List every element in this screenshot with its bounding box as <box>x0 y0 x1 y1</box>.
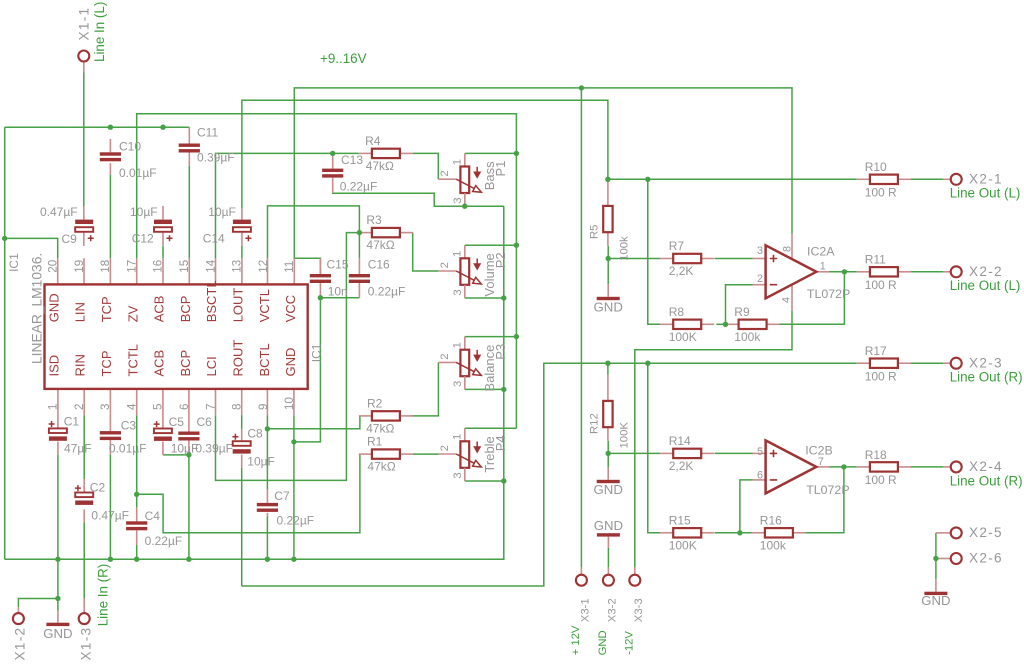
wire R8 feed from R10 node <box>648 179 660 324</box>
pin R12 top/bottom <box>607 375 609 401</box>
wire R10 to X2-1 <box>911 178 943 180</box>
capacitor C13 <box>322 169 343 172</box>
wire pin20 to GND rail <box>5 238 58 258</box>
svg-text:R12: R12 <box>589 413 601 434</box>
wire R14 to op-amp + <box>715 452 753 454</box>
potentiometer P1 Bass <box>464 153 466 166</box>
svg-text:47kΩ: 47kΩ <box>367 460 395 474</box>
svg-text:C13: C13 <box>341 153 363 167</box>
wire R1 to P4 wiper <box>413 453 438 455</box>
svg-text:GND: GND <box>283 348 298 377</box>
IC1 LM1036 body <box>45 284 308 389</box>
svg-text:C11: C11 <box>197 126 218 140</box>
wire C11 bottom <box>188 166 190 258</box>
pin 2 RIN <box>83 389 85 415</box>
svg-text:C16: C16 <box>368 258 390 272</box>
capacitor C3 <box>100 431 121 434</box>
pin X2-2 stub <box>943 271 950 273</box>
resistor R17 <box>857 362 870 364</box>
pin IC2A output <box>816 271 829 273</box>
wire C15/C16 bottom to pin10 <box>294 298 321 442</box>
svg-text:4: 4 <box>125 403 138 410</box>
svg-text:1: 1 <box>452 159 464 165</box>
svg-text:0.22µF: 0.22µF <box>145 534 183 548</box>
svg-text:X3-2: X3-2 <box>607 598 619 622</box>
svg-text:GND: GND <box>921 593 950 608</box>
svg-text:P3: P3 <box>493 344 508 360</box>
svg-text:ACB: ACB <box>152 296 167 323</box>
svg-text:R4: R4 <box>365 134 381 148</box>
wire IC2A feedback <box>779 272 845 325</box>
pin X3-3 stub <box>634 567 636 574</box>
svg-text:10µF: 10µF <box>130 205 158 219</box>
svg-text:100K: 100K <box>669 538 697 552</box>
pin 17 ZV <box>136 258 138 284</box>
wire C5 bottom jog to C6 <box>163 454 189 456</box>
wire C14 top to R5/R10 node <box>242 100 608 208</box>
svg-text:ZV: ZV <box>125 305 140 322</box>
svg-text:17: 17 <box>125 260 138 273</box>
pin 10 GND <box>293 389 295 415</box>
capacitor C8 <box>233 441 251 446</box>
svg-text:R10: R10 <box>865 160 887 174</box>
wire GND rail left loop <box>4 127 6 559</box>
resistor R11 <box>857 271 870 273</box>
svg-text:Line Out (R): Line Out (R) <box>950 473 1023 488</box>
wire R5 gnd stub <box>607 246 609 285</box>
svg-text:5: 5 <box>152 404 165 410</box>
wire C14 bottom <box>241 246 243 258</box>
pin X2-3 stub <box>943 362 950 364</box>
svg-text:C14: C14 <box>203 232 225 246</box>
wire R12 gnd stub <box>607 441 609 468</box>
svg-text:10: 10 <box>283 397 296 410</box>
wire R12 bottom node to R14 <box>608 452 660 454</box>
wire pin10 to GND bus <box>293 415 295 559</box>
svg-text:C1: C1 <box>64 415 80 429</box>
svg-text:C4: C4 <box>145 509 161 523</box>
svg-text:C15: C15 <box>327 258 349 272</box>
pin IC2B output <box>816 466 829 468</box>
wire R15/R16 node to op-amp - <box>740 480 753 533</box>
svg-text:19: 19 <box>73 260 86 273</box>
wire P2 pin1 <box>465 244 517 246</box>
ground under R5 <box>607 284 609 297</box>
wire pin1/C1 bottom to GND bus <box>57 455 59 560</box>
capacitor C4 <box>126 521 147 524</box>
pin C15 leads <box>319 258 321 274</box>
wire C10 bottom <box>109 175 111 258</box>
svg-text:X2-6: X2-6 <box>969 551 1003 566</box>
svg-text:0.39µF: 0.39µF <box>197 151 235 165</box>
wire VCC to C15 <box>294 258 320 274</box>
svg-text:100k: 100k <box>760 538 787 552</box>
potentiometer P4 Treble <box>464 428 466 441</box>
svg-text:Line Out (L): Line Out (L) <box>950 186 1021 201</box>
wire C7 top <box>266 429 268 490</box>
potentiometer P3 Balance <box>464 337 466 350</box>
svg-text:2: 2 <box>439 170 451 176</box>
svg-text:100 R: 100 R <box>865 278 897 292</box>
svg-text:X2-5: X2-5 <box>969 525 1003 540</box>
pin 14 BSCTL <box>215 258 217 284</box>
resistor R1 <box>359 453 372 455</box>
resistor R3 <box>359 232 372 234</box>
svg-text:2: 2 <box>439 262 451 268</box>
wire C8 bottom to signal bus <box>241 468 243 586</box>
wire pin2 to C2 to X1-3 <box>83 415 85 479</box>
svg-text:LOUT: LOUT <box>231 288 246 323</box>
svg-text:LINEAR_LM1036.: LINEAR_LM1036. <box>30 253 45 364</box>
wire C4 jog to R1 <box>137 454 360 533</box>
connector X2-4 <box>951 461 962 472</box>
svg-text:X1-1: X1-1 <box>77 7 92 41</box>
ground under R12 <box>607 468 609 480</box>
svg-text:C9: C9 <box>62 232 78 246</box>
wire P1 pin1 to pot rail <box>465 152 517 154</box>
svg-text:3: 3 <box>452 472 464 478</box>
svg-text:TCP: TCP <box>99 296 114 322</box>
wire IC2B output node <box>830 466 857 468</box>
svg-text:Line In (L): Line In (L) <box>92 2 107 62</box>
wire C7 bottom to GND bus <box>266 516 268 559</box>
svg-text:6: 6 <box>757 469 763 481</box>
svg-text:Line In (R): Line In (R) <box>96 564 111 627</box>
ground near X1-2 <box>57 611 59 623</box>
svg-text:100 R: 100 R <box>865 186 897 200</box>
svg-text:BCP: BCP <box>178 296 193 323</box>
resistor R15 <box>660 532 673 534</box>
wire R4 to P1 wiper <box>413 153 438 179</box>
svg-text:C6: C6 <box>197 415 213 429</box>
pin 5 ACB + C5 leads <box>162 389 164 429</box>
wire BSCTL to C13/R4 node <box>216 153 359 258</box>
pin X2-5 stub <box>936 532 950 534</box>
svg-text:16: 16 <box>152 260 165 273</box>
wire ZV pin17 net <box>137 114 517 429</box>
pin 11 VCC <box>293 258 295 284</box>
svg-text:3: 3 <box>452 381 464 387</box>
capacitor C12 <box>154 220 172 224</box>
wire P4 pin3 <box>465 480 504 482</box>
pin 18 TCP + C10 lead <box>109 139 111 152</box>
wire C13 bottom to pots-gnd <box>333 193 504 206</box>
svg-text:P2: P2 <box>493 252 508 268</box>
wire +12V drop to X3-1 <box>580 88 582 568</box>
svg-text:R16: R16 <box>760 513 782 527</box>
svg-text:GND: GND <box>594 482 623 497</box>
svg-text:BCP: BCP <box>178 350 193 377</box>
wire X1-2 jog <box>57 559 59 611</box>
pin IC2A power 4 <box>791 285 793 311</box>
svg-text:R14: R14 <box>669 434 691 448</box>
wire R7 to op-amp + <box>715 258 753 260</box>
resistor R4 <box>359 152 372 154</box>
svg-text:TCP: TCP <box>99 351 114 377</box>
connector X1-3 <box>79 613 90 624</box>
wire IC2A output node <box>830 271 857 273</box>
wire cap-top rail y=127 <box>5 126 190 128</box>
connector X2-5 <box>951 527 962 538</box>
pin X1-1 stub <box>83 62 85 72</box>
svg-text:8: 8 <box>231 404 244 410</box>
pin X1-2 stub <box>17 607 19 612</box>
wire R18 to X2-4 <box>911 466 944 468</box>
pin 15 BCP + C11 leads <box>188 127 190 143</box>
pin X2-4 stub <box>943 466 950 468</box>
wire R3 to P2 wiper <box>413 233 439 271</box>
svg-text:LIN: LIN <box>73 302 88 322</box>
svg-text:C8: C8 <box>247 427 263 441</box>
wire C8 top <box>241 415 243 429</box>
svg-text:ACB: ACB <box>152 350 167 377</box>
svg-text:1: 1 <box>452 251 464 257</box>
svg-text:100 R: 100 R <box>865 370 897 384</box>
wire P2 pin3 <box>465 297 504 299</box>
svg-text:LCI: LCI <box>204 356 219 376</box>
svg-text:TL072P: TL072P <box>807 287 850 301</box>
connector X2-3 <box>951 358 962 369</box>
svg-text:C2: C2 <box>90 481 106 495</box>
svg-text:R11: R11 <box>865 253 886 267</box>
svg-text:12: 12 <box>257 260 270 273</box>
wire R5 bottom node to R7 <box>608 258 660 260</box>
pin X3-2 stub <box>607 567 609 574</box>
pin C4 leads <box>136 508 138 522</box>
svg-text:+ 12V: + 12V <box>570 625 582 655</box>
svg-text:8: 8 <box>782 246 794 252</box>
svg-text:10n: 10n <box>328 285 348 299</box>
wire op-amp - input loop <box>726 285 753 325</box>
svg-text:C10: C10 <box>119 139 141 153</box>
svg-text:R8: R8 <box>669 305 685 319</box>
svg-text:ROUT: ROUT <box>231 340 246 377</box>
capacitor C15 <box>310 274 331 277</box>
pin 12 VCTL <box>267 258 269 284</box>
wire +9..16V rail <box>294 88 792 258</box>
svg-text:+9..16V: +9..16V <box>320 51 367 66</box>
svg-text:3: 3 <box>452 289 464 295</box>
wire C12 bottom <box>162 246 164 258</box>
capacitor C14 <box>233 220 251 224</box>
pin X2-6 stub <box>936 558 950 560</box>
ground under X2-6 <box>935 579 937 592</box>
svg-text:3: 3 <box>452 198 464 204</box>
svg-text:0.22µF: 0.22µF <box>340 180 378 194</box>
wire P4 pin1 <box>465 427 517 429</box>
svg-text:4: 4 <box>781 297 793 303</box>
svg-text:0.47µF: 0.47µF <box>40 205 78 219</box>
svg-text:GND: GND <box>594 518 623 533</box>
svg-text:13: 13 <box>231 260 244 273</box>
svg-text:2: 2 <box>439 354 451 360</box>
pin X2-1 stub <box>943 178 950 180</box>
svg-text:2,2K: 2,2K <box>669 264 694 278</box>
wire right-channel signal bus <box>242 363 857 586</box>
svg-text:R17: R17 <box>865 344 887 358</box>
capacitor C6 <box>178 432 199 435</box>
pin C9 leads <box>83 206 85 219</box>
wire LCI pin7 to R3/C16 node <box>216 233 360 481</box>
svg-text:7: 7 <box>818 456 824 468</box>
wire R15 to R16 node <box>715 532 752 534</box>
svg-text:R5: R5 <box>589 225 601 239</box>
svg-text:IC2A: IC2A <box>807 244 835 258</box>
wire C16 top <box>358 233 360 258</box>
resistor R14 <box>660 452 673 454</box>
wire IC2B feedback <box>806 467 844 533</box>
svg-text:11: 11 <box>283 261 296 273</box>
wire pin3/C3 bottom to GND bus <box>109 455 111 560</box>
wire P3 pin3 <box>465 388 504 390</box>
capacitor C7 <box>257 503 278 506</box>
connector X1-1 <box>78 51 89 62</box>
svg-text:1: 1 <box>820 260 826 272</box>
svg-text:1: 1 <box>452 434 464 440</box>
resistor R7 <box>660 258 673 260</box>
pin C13 leads <box>332 153 334 168</box>
svg-text:0.01µF: 0.01µF <box>109 442 147 456</box>
connector X2-6 <box>951 553 962 564</box>
svg-text:0.39µF: 0.39µF <box>195 442 233 456</box>
wire X2-5/X2-6 gnd <box>935 533 937 579</box>
svg-text:10µF: 10µF <box>171 442 199 456</box>
potentiometer P2 Volume <box>464 245 466 258</box>
svg-text:TL072P: TL072P <box>806 483 849 497</box>
resistor R2 <box>359 415 372 417</box>
pin R5 top/bottom <box>607 179 609 206</box>
svg-text:R3: R3 <box>366 213 382 227</box>
wire GND bus bottom <box>5 206 504 559</box>
svg-text:100k: 100k <box>734 330 761 344</box>
svg-text:P4: P4 <box>493 435 508 451</box>
svg-text:X1-3: X1-3 <box>79 627 94 661</box>
svg-text:0.22µF: 0.22µF <box>368 285 406 299</box>
svg-text:0.22µF: 0.22µF <box>277 514 315 528</box>
svg-text:2: 2 <box>757 273 763 285</box>
svg-text:X1-2: X1-2 <box>13 627 28 661</box>
pin 19 LIN <box>83 258 85 284</box>
capacitor C9 <box>75 220 93 224</box>
svg-text:100k: 100k <box>619 236 631 261</box>
svg-text:7: 7 <box>204 404 217 410</box>
resistor R16 <box>752 532 765 534</box>
pin 9 BCTL <box>266 389 268 415</box>
svg-text:P1: P1 <box>493 161 508 177</box>
wire C4 bottom to GND bus <box>136 545 138 559</box>
svg-text:BCTL: BCTL <box>257 343 272 376</box>
svg-text:47kΩ: 47kΩ <box>366 421 394 435</box>
svg-text:X2-2: X2-2 <box>969 264 1003 279</box>
capacitor C1 <box>49 428 67 433</box>
capacitor C10 <box>100 152 121 155</box>
svg-text:R15: R15 <box>669 513 691 527</box>
pin X3-1 stub <box>580 567 582 574</box>
svg-text:C7: C7 <box>274 489 290 503</box>
pin 13 LOUT + C14 leads <box>241 208 243 220</box>
ground above X3-2 (flipped) <box>607 537 609 548</box>
pin X1-3 stub <box>83 598 85 613</box>
svg-text:R18: R18 <box>865 448 887 462</box>
svg-text:ISD: ISD <box>46 355 61 377</box>
svg-text:1: 1 <box>452 342 464 348</box>
pin C7 leads <box>266 490 268 503</box>
wire P1 pin3 <box>465 205 504 207</box>
pin 7 LCI <box>215 389 217 415</box>
svg-text:R2: R2 <box>367 397 383 411</box>
capacitor C16 <box>349 274 370 277</box>
svg-text:-12V: -12V <box>623 631 635 655</box>
svg-text:Line Out (R): Line Out (R) <box>950 370 1023 385</box>
pin 16 ACB + C12 leads <box>162 206 164 220</box>
pin C16 leads <box>358 258 360 274</box>
wire R17 to X2-3 <box>911 362 943 364</box>
svg-text:X3-3: X3-3 <box>633 598 645 622</box>
svg-text:R7: R7 <box>669 239 685 253</box>
svg-text:GND: GND <box>46 293 61 322</box>
wire R11 to X2-2 <box>911 271 943 273</box>
svg-text:IC1: IC1 <box>7 253 21 272</box>
wire pin4 to -12V X3-3 <box>635 311 792 567</box>
svg-text:BSCTL: BSCTL <box>204 280 219 322</box>
pin IC2A inputs <box>753 258 766 260</box>
wire pin9 BCTL to R2 and C7 <box>267 415 360 429</box>
capacitor C11 <box>179 144 200 147</box>
resistor R12 vertical <box>603 401 612 427</box>
connector X1-2 <box>13 613 24 624</box>
pin 1 ISD + C1 lead <box>57 389 59 429</box>
svg-text:2: 2 <box>73 404 86 410</box>
svg-text:X2-3: X2-3 <box>969 355 1003 370</box>
wire TCTL pin4 to C4 and R1 <box>136 415 138 508</box>
svg-text:47µF: 47µF <box>64 442 92 456</box>
pin C2 leads <box>83 479 85 493</box>
svg-text:X2-4: X2-4 <box>969 459 1003 474</box>
svg-text:Line Out (L): Line Out (L) <box>950 278 1021 293</box>
svg-text:C12: C12 <box>132 232 154 246</box>
pin 20 GND <box>57 258 59 284</box>
junction dots <box>2 236 7 241</box>
resistor R18 <box>857 466 870 468</box>
svg-text:IC1: IC1 <box>310 343 324 362</box>
svg-text:3: 3 <box>757 245 763 257</box>
capacitor C2 <box>75 493 93 498</box>
svg-text:15: 15 <box>178 260 191 273</box>
svg-text:R1: R1 <box>367 435 383 449</box>
connector X2-2 <box>951 266 962 277</box>
svg-text:18: 18 <box>99 260 112 273</box>
svg-text:R9: R9 <box>734 305 750 319</box>
svg-text:10µF: 10µF <box>208 205 236 219</box>
svg-text:20: 20 <box>47 260 60 273</box>
svg-text:C5: C5 <box>169 415 185 429</box>
pin 6 BCP + C6 leads <box>188 389 190 432</box>
svg-text:3: 3 <box>99 404 112 410</box>
wire R15 drop <box>648 363 660 533</box>
wire X3-2 gnd <box>607 548 609 568</box>
pin 8 ROUT + C8 leads <box>241 389 243 415</box>
wire R8 to R9 <box>716 323 725 325</box>
wire VCTL pin12 to R3/C16 node <box>268 206 360 258</box>
pin IC2A power 8 <box>791 234 793 260</box>
pin IC2B inputs <box>753 452 766 454</box>
connector X3-3 <box>629 575 640 586</box>
svg-text:100 R: 100 R <box>865 473 897 487</box>
svg-text:GND: GND <box>597 630 609 655</box>
svg-text:47kΩ: 47kΩ <box>366 159 394 173</box>
svg-text:VCC: VCC <box>283 295 298 322</box>
wire X1-1 down to C9 <box>83 70 85 207</box>
